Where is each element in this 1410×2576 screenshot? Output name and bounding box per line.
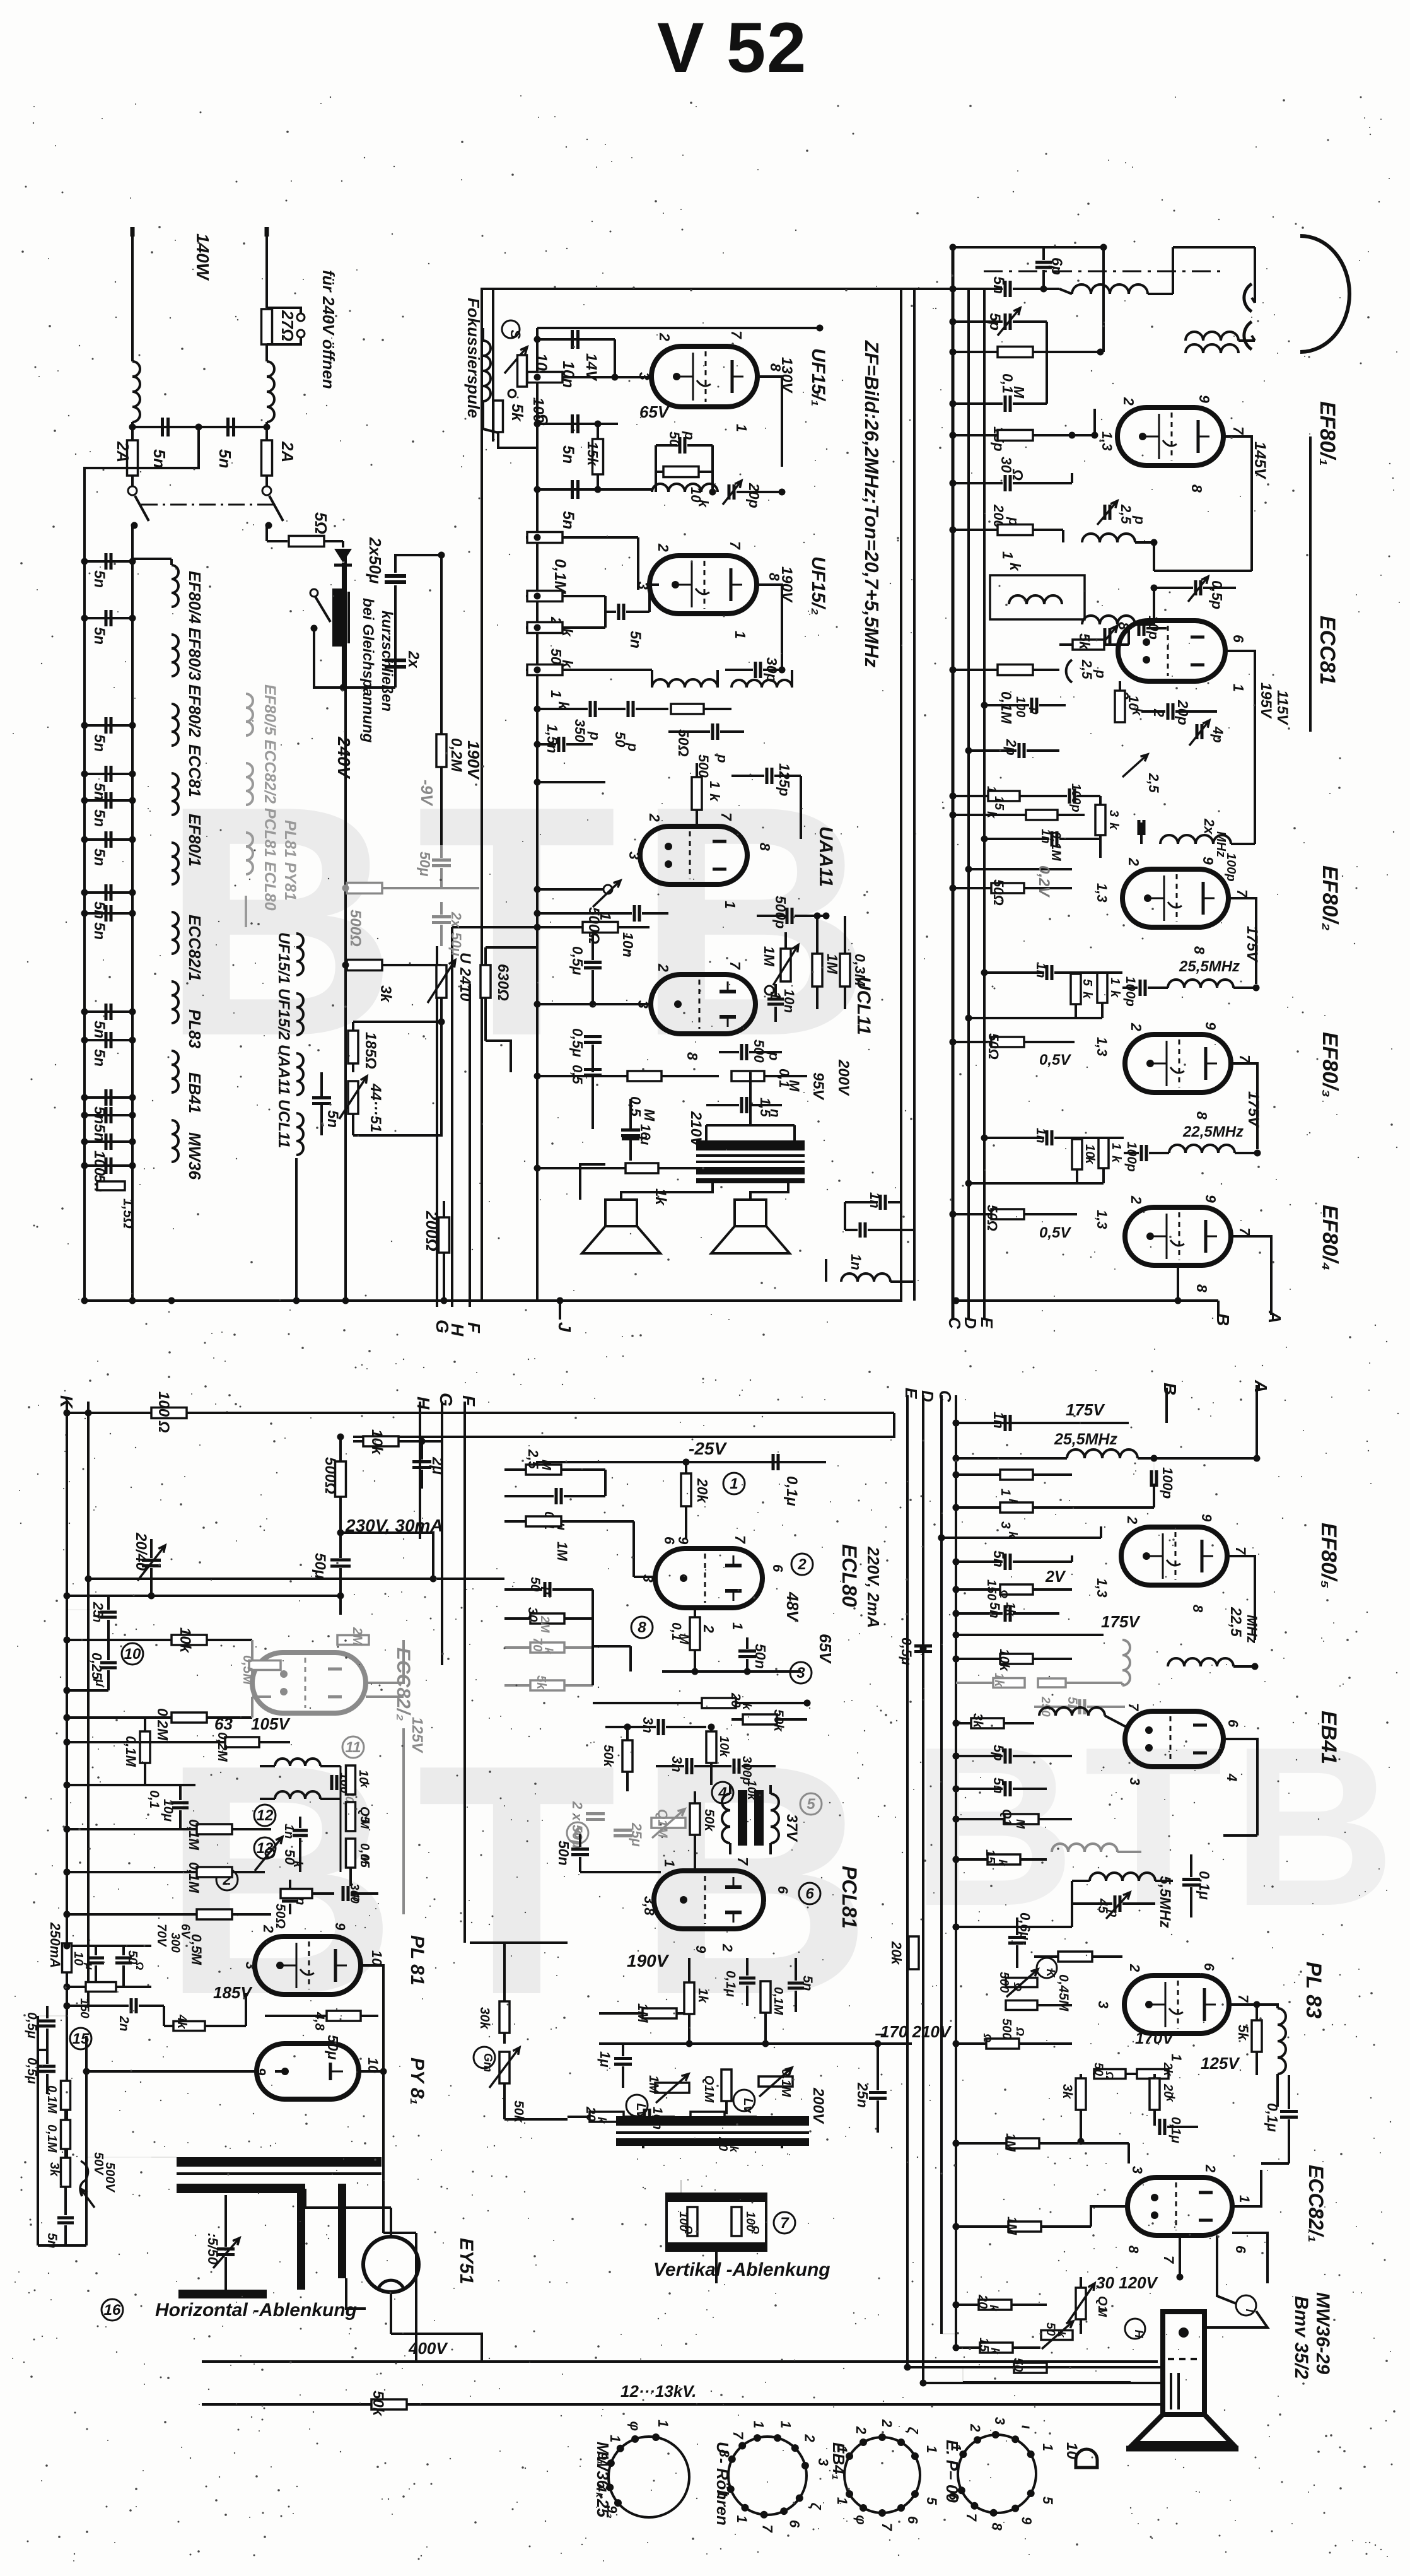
resistor 5 ohm [267,540,288,542]
capacitor 50p b [627,701,630,717]
svg-text:S: S [508,330,523,339]
svg-text:E: E [902,1388,921,1399]
capacitor 1n e2 [1051,831,1054,846]
svg-text:6p: 6p [1048,257,1065,275]
svg-text:50k: 50k [771,1709,786,1732]
left border wire [37,2016,39,2245]
svg-text:10k: 10k [717,1736,731,1757]
junction dots K bus [64,1410,71,1417]
wire [131,422,134,443]
resistor 0.1M k1 [61,2081,71,2110]
svg-text:185Ω: 185Ω [362,1032,379,1069]
fuse 2A right [262,440,272,476]
svg-text:Ω: Ω [1014,2027,1027,2036]
wire va [680,2180,682,2194]
svg-text:Q1: Q1 [999,1809,1013,1826]
resistor 50k bot2 [1014,2363,1047,2373]
svg-text:1,5Ω: 1,5Ω [120,1198,136,1229]
svg-text:J: J [555,1322,574,1333]
capacitor 5n UCL [312,1096,331,1099]
svg-text:400V: 400V [408,2339,448,2358]
wire ecl grid2 [591,1590,594,1685]
svg-text:6: 6 [805,1885,814,1902]
wire [1153,542,1155,571]
fuse 2A left [127,440,138,476]
svg-text:EF80/5 ECC82/2 PCL81 ECL80: EF80/5 ECC82/2 PCL81 ECL80 [261,684,279,911]
wire ecl k [662,1670,801,1673]
capacitor 3n b [685,1758,689,1774]
svg-text:6: 6 [1201,1963,1217,1971]
svg-text:p: p [587,731,603,740]
circnum 16 [102,2299,123,2321]
rung [67,1716,208,1719]
svg-text:0,1M: 0,1M [779,2069,793,2098]
svg-text:MW36: MW36 [185,1132,204,1180]
svg-text:50Ω: 50Ω [675,729,692,757]
svg-text:63: 63 [214,1714,233,1733]
bus K [66,1402,68,2187]
svg-text:1: 1 [998,1489,1013,1496]
circnum Lv a [626,2095,648,2116]
pot 50k bot [1041,2331,1073,2340]
tube EF80/4 [1125,1207,1231,1265]
coil eb41 [1039,1707,1105,1716]
bus H lower [419,1402,421,1539]
svg-text:25,5MHz: 25,5MHz [1179,958,1240,975]
wire ecc82 r [1232,2170,1261,2206]
trimmer 4p [1196,724,1199,739]
tube bottom wire [1177,1265,1179,1301]
speaker 2 [735,1200,766,1226]
svg-text:8: 8 [989,2523,1005,2531]
svg-text:22,5: 22,5 [1227,1607,1244,1637]
svg-text:5n: 5n [987,1602,1003,1619]
resistor 0.1M k2 [61,2120,71,2149]
svg-text:25,5MHz: 25,5MHz [1054,1431,1118,1448]
svg-text:2: 2 [801,2433,817,2442]
rung3 [67,1913,208,1916]
svg-text:12···13kV.: 12···13kV. [621,2382,696,2401]
diode D1 [334,549,352,563]
svg-text:K: K [1044,1969,1057,1979]
svg-text:6: 6 [787,2520,803,2528]
svg-text:500Ω: 500Ω [585,907,602,944]
capacitor 100p e2 [1068,788,1071,804]
capacitor 0.5u c [584,1068,602,1071]
svg-text:Fokussierspule: Fokussierspule [464,298,483,418]
resistor 10k r [1000,1654,1033,1664]
circnum 7 [774,2212,795,2234]
resistor 3k r3 [971,1718,1004,1728]
svg-text:2A: 2A [114,441,132,462]
capacitor 1n osc [293,1829,308,1832]
resistor 3k k [61,2158,71,2187]
svg-text:95V: 95V [810,1072,827,1101]
coil 2x MHz [1160,835,1231,844]
socket MW36-25 [609,2437,689,2517]
svg-text:k: k [1108,990,1122,998]
svg-text:0,5V: 0,5V [1039,1051,1071,1068]
svg-text:4p: 4p [1210,726,1226,743]
svg-text:k: k [1107,823,1121,830]
gray coil r2 [1052,1844,1117,1852]
svg-text:175V: 175V [1066,1400,1105,1419]
circnum I [1236,2295,1256,2315]
rung 3055 [956,1926,1072,1928]
svg-text:μ: μ [83,1962,96,1970]
capacitor 0.5u r [914,1644,932,1648]
svg-text:0,1μ: 0,1μ [1196,1871,1213,1900]
mains wire left [131,228,134,361]
svg-text:p: p [625,742,641,751]
svg-text:5Ω: 5Ω [312,512,330,534]
svg-text:ECC81: ECC81 [185,744,204,797]
svg-text:5n: 5n [91,848,108,866]
wire mid2 [486,946,537,949]
circnum 6 gray [567,1822,588,1844]
svg-text:M: M [1011,386,1027,399]
svg-text:1n: 1n [867,1192,883,1209]
capacitor 100p r1 [1150,1470,1153,1487]
wires yoke [642,2146,644,2148]
resistor 0.5 osc [346,1802,356,1831]
svg-text:0,1M: 0,1M [45,2124,59,2153]
svg-text:65V: 65V [639,402,670,421]
resistor 20k ecl [681,1473,691,1506]
resistor 1M pcl [643,2008,677,2018]
svg-text:50Ω: 50Ω [986,1033,1001,1060]
top rail to antenna [901,288,953,290]
wire [969,868,1072,870]
mains choke L2 [267,361,274,422]
svg-text:10: 10 [71,1952,85,1965]
svg-text:0,2M: 0,2M [215,1732,230,1762]
tube EF80/3 [1125,1034,1231,1092]
svg-text:0,1M: 0,1M [771,1987,785,2016]
svg-text:E. P– 00: E. P– 00 [943,2440,962,2503]
resistor 1M ecl [526,1516,561,1526]
wire junction row [132,426,267,428]
capacitor 1n r1 [1004,1415,1007,1431]
wire fokus [498,433,537,448]
resistor 3k r4 [1076,2078,1086,2110]
tube EB41 [1125,1711,1223,1767]
svg-text:U 2410: U 2410 [457,952,474,1002]
capacitor 5n pcl [788,1982,804,1985]
svg-text:100p: 100p [1123,976,1138,1007]
svg-text:EB41: EB41 [1317,1711,1341,1764]
svg-text:M: M [358,1819,371,1829]
capacitor 50n pcl [571,1847,589,1851]
resistor 20k r4 [1150,2078,1160,2110]
svg-text:PCL81: PCL81 [838,1866,861,1929]
svg-text:200Ω: 200Ω [422,1210,441,1251]
resistor 1k f3 [1098,1138,1109,1168]
capacitor 0.1u r4 [1158,2119,1162,2135]
svg-text:6: 6 [1233,2245,1249,2254]
svg-text:5n: 5n [990,276,1007,294]
resistor 20k r2 [909,1936,919,1969]
svg-text:5k: 5k [1235,2025,1251,2041]
svg-text:3k: 3k [1060,2084,1075,2100]
wires ey51 [305,2189,391,2208]
svg-text:M: M [539,1460,553,1471]
gray resistor 0.05M [249,1661,281,1670]
svg-text:65V: 65V [816,1634,835,1665]
resistor 30k gm [499,2001,510,2033]
circnum 4 [712,1782,733,1803]
resistor 10k e2 [706,1731,716,1763]
capacitor 0.1u ecl [772,1454,775,1470]
svg-text:5n: 5n [559,445,577,464]
svg-text:3: 3 [796,1665,805,1682]
svg-text:1: 1 [661,1859,677,1867]
svg-text:EB4₁: EB4₁ [829,2442,848,2480]
output transformer [696,1140,805,1150]
pot 500 ohm a [1006,1978,1037,1988]
resistor 100 ohm va [687,2207,697,2236]
svg-text:p: p [540,1586,554,1595]
svg-text:B: B [1213,1313,1233,1326]
wire ha [151,2157,177,2158]
svg-text:ECC82/₁: ECC82/₁ [1305,2165,1327,2242]
svg-text:PL 83: PL 83 [1302,1962,1326,2018]
resistor 1k uf2 [526,669,537,671]
wire [537,781,605,783]
crt wire kv [1131,2403,1163,2406]
wire [265,344,268,361]
resistor 20k bot [979,2300,1011,2310]
svg-text:7: 7 [1237,1055,1253,1063]
svg-text:2: 2 [797,1556,807,1573]
resistor 20k pcl3 [690,2112,725,2122]
resistor 30k lk [530,1613,564,1624]
svg-text:115V: 115V [1274,690,1291,725]
svg-text:M: M [1096,2307,1109,2317]
coil 55 [1090,1873,1155,1881]
svg-text:6: 6 [770,1564,786,1572]
svg-text:50Ω: 50Ω [984,1205,1000,1231]
wire step [962,2368,964,2382]
capacitor 10n pcl [643,2109,646,2125]
svg-text:1n: 1n [282,1824,296,1839]
anode EF80/4 [1231,1236,1271,1315]
svg-text:7: 7 [728,331,745,339]
wire pl grid [227,2025,246,2027]
svg-text:k: k [728,2146,740,2153]
tube EF80/2 [1122,869,1228,927]
coil 2.5p pair b [1082,616,1135,624]
svg-text:105V: 105V [251,1714,291,1733]
svg-text:20: 20 [976,2294,989,2309]
capacitor 1n l [282,1895,298,1898]
svg-text:150: 150 [78,1998,91,2018]
grid box ecl [632,1521,635,1577]
svg-text:20/40: 20/40 [132,1532,149,1571]
svg-text:Gm: Gm [482,2053,494,2072]
svg-text:ZF=Bild:26,2MHz;Ton=20,7+5,5MH: ZF=Bild:26,2MHz;Ton=20,7+5,5MHz [861,340,883,668]
svg-text:5n: 5n [91,570,108,588]
svg-text:2: 2 [1126,857,1142,866]
wire eb41 r [1223,1739,1257,1835]
svg-text:k: k [707,793,723,802]
resistor 0.5M [627,1071,661,1081]
svg-text:20k: 20k [889,1941,904,1965]
svg-text:10: 10 [1083,1144,1097,1158]
resistor 0.1M pcl [760,1981,771,2013]
svg-text:50n: 50n [752,1644,769,1669]
tube ECL80 [655,1549,762,1608]
svg-text:PY 8₁: PY 8₁ [407,2058,428,2105]
vertical deflection box [667,2194,766,2251]
svg-text:2A: 2A [278,441,297,462]
svg-text:p: p [1093,669,1109,678]
resistor 0.45M [1058,1952,1092,1962]
svg-text:1: 1 [1109,1143,1123,1150]
resistor 15k bot [980,2343,1013,2353]
switch S1b [262,486,271,495]
cap 2x50u gray [586,1812,605,1815]
wire [342,647,344,688]
resistor 27 ohm [262,309,272,344]
pot 1M uaa [603,885,612,894]
svg-text:6: 6 [1230,635,1247,643]
capacitor 10n [537,338,615,341]
resistor 630 ohm [481,965,491,998]
svg-text:3: 3 [998,1521,1013,1529]
tube UF15/1 [651,346,757,407]
svg-text:3: 3 [1129,2166,1145,2174]
svg-text:M: M [1014,1819,1027,1829]
svg-text:G: G [433,1320,452,1333]
svg-text:145V: 145V [1251,442,1269,480]
svg-text:0,1μ: 0,1μ [1264,2103,1281,2132]
IF frame box [482,289,901,1301]
svg-text:3k: 3k [970,1713,985,1729]
tube PL83 [1124,1976,1229,2034]
svg-text:2k: 2k [1161,2062,1174,2077]
circnum 12 [254,1805,276,1826]
IF left bus [536,328,539,1301]
capacitor 5n heater rung [84,1096,132,1099]
picture tube MW36 [1163,2312,1204,2415]
svg-text:9: 9 [1203,1022,1219,1030]
svg-text:0,5μ: 0,5μ [569,946,586,975]
svg-text:4: 4 [1224,1773,1240,1781]
coil IF2b [731,680,792,688]
resistor 1k f2 [1097,973,1107,1003]
svg-text:170V: 170V [1135,2029,1175,2047]
resistor 10k fokus [518,355,527,387]
svg-text:100p: 100p [1069,783,1083,812]
bus C lower [940,1395,943,2334]
svg-text:7: 7 [760,2525,776,2534]
resistor 5k pl83 [1252,2020,1262,2052]
pot 50k l [265,1849,274,1858]
mains wire right [265,228,268,308]
svg-text:5n: 5n [1065,1697,1080,1712]
svg-text:190V: 190V [627,1951,670,1970]
gray cap 50u a [432,858,451,862]
svg-text:1: 1 [984,786,998,793]
svg-text:p: p [1132,515,1148,524]
svg-text:1: 1 [1237,2195,1252,2203]
mains choke L1 [132,361,140,422]
capacitor 1.5n [740,1097,743,1113]
svg-text:EF80/₁: EF80/₁ [1315,401,1339,466]
tube PCL81 [654,1871,764,1929]
resistor 0.2M mid [436,734,446,767]
svg-text:50μ: 50μ [312,1553,329,1579]
svg-text:1: 1 [924,2445,940,2453]
rail top lower [67,1412,894,1414]
svg-text:240V: 240V [334,736,354,780]
tube EF80/1 [1117,407,1223,465]
svg-text:UF15/₂: UF15/₂ [808,556,829,615]
capacitor 100p f2 [1139,980,1142,996]
svg-text:500: 500 [997,1972,1011,1993]
IF frame inner line [492,289,494,442]
svg-text:0,2M: 0,2M [448,738,465,772]
capacitor 5n heater rung [84,1039,132,1041]
svg-text:125V: 125V [409,1717,426,1753]
svg-text:k: k [291,1861,305,1868]
svg-text:Ω: Ω [749,2225,762,2234]
trimmer 15/50 [217,2247,235,2251]
svg-text:EF80/₄: EF80/₄ [1318,1205,1342,1270]
capacitor 50p [679,437,682,454]
capacitor 50 pl [115,1957,132,1960]
trimmer 45p [1114,1895,1117,1912]
svg-text:PL81 PY81: PL81 PY81 [281,820,299,901]
resistor 50k s2 [526,626,537,629]
svg-text:14V: 14V [583,353,600,382]
capacitor 0.1u b [555,1488,558,1504]
svg-text:6: 6 [775,1886,791,1894]
svg-text:1: 1 [722,901,738,909]
resistor 0.1M r [1005,1814,1039,1824]
svg-text:G: G [436,1393,456,1407]
svg-text:1n: 1n [1039,829,1052,843]
trans windings [722,1794,730,1843]
resistor 50ohm ef2 [991,883,1024,893]
tube ECC82/1 [1127,2177,1232,2235]
svg-text:2: 2 [655,963,672,972]
capacitor 100p e3 [1138,820,1141,835]
svg-text:1: 1 [707,781,723,788]
capacitor 10n ucl [767,998,784,1001]
svg-text:Bmv 35/2: Bmv 35/2 [1291,2296,1312,2379]
svg-text:44···51: 44···51 [367,1083,384,1132]
svg-text:1M: 1M [554,1542,570,1561]
dash line top [984,271,1220,272]
svg-text:5n: 5n [991,1777,1006,1794]
bus H upper [451,927,453,1307]
svg-text:Ω: Ω [134,1961,146,1970]
svg-text:50μ: 50μ [325,2035,341,2060]
resistor 115k [988,791,1020,801]
svg-text:3k: 3k [377,985,394,1003]
svg-text:1M: 1M [761,946,778,967]
svg-text:50: 50 [1092,2063,1105,2076]
svg-text:2: 2 [1121,397,1137,406]
svg-text:μ: μ [93,1678,107,1687]
svg-text:13: 13 [257,1840,274,1857]
circnum 5 gray [800,1793,822,1815]
wire ecc anode [1226,651,1255,732]
coil bottom [841,1273,890,1282]
svg-text:-25V: -25V [689,1439,727,1458]
